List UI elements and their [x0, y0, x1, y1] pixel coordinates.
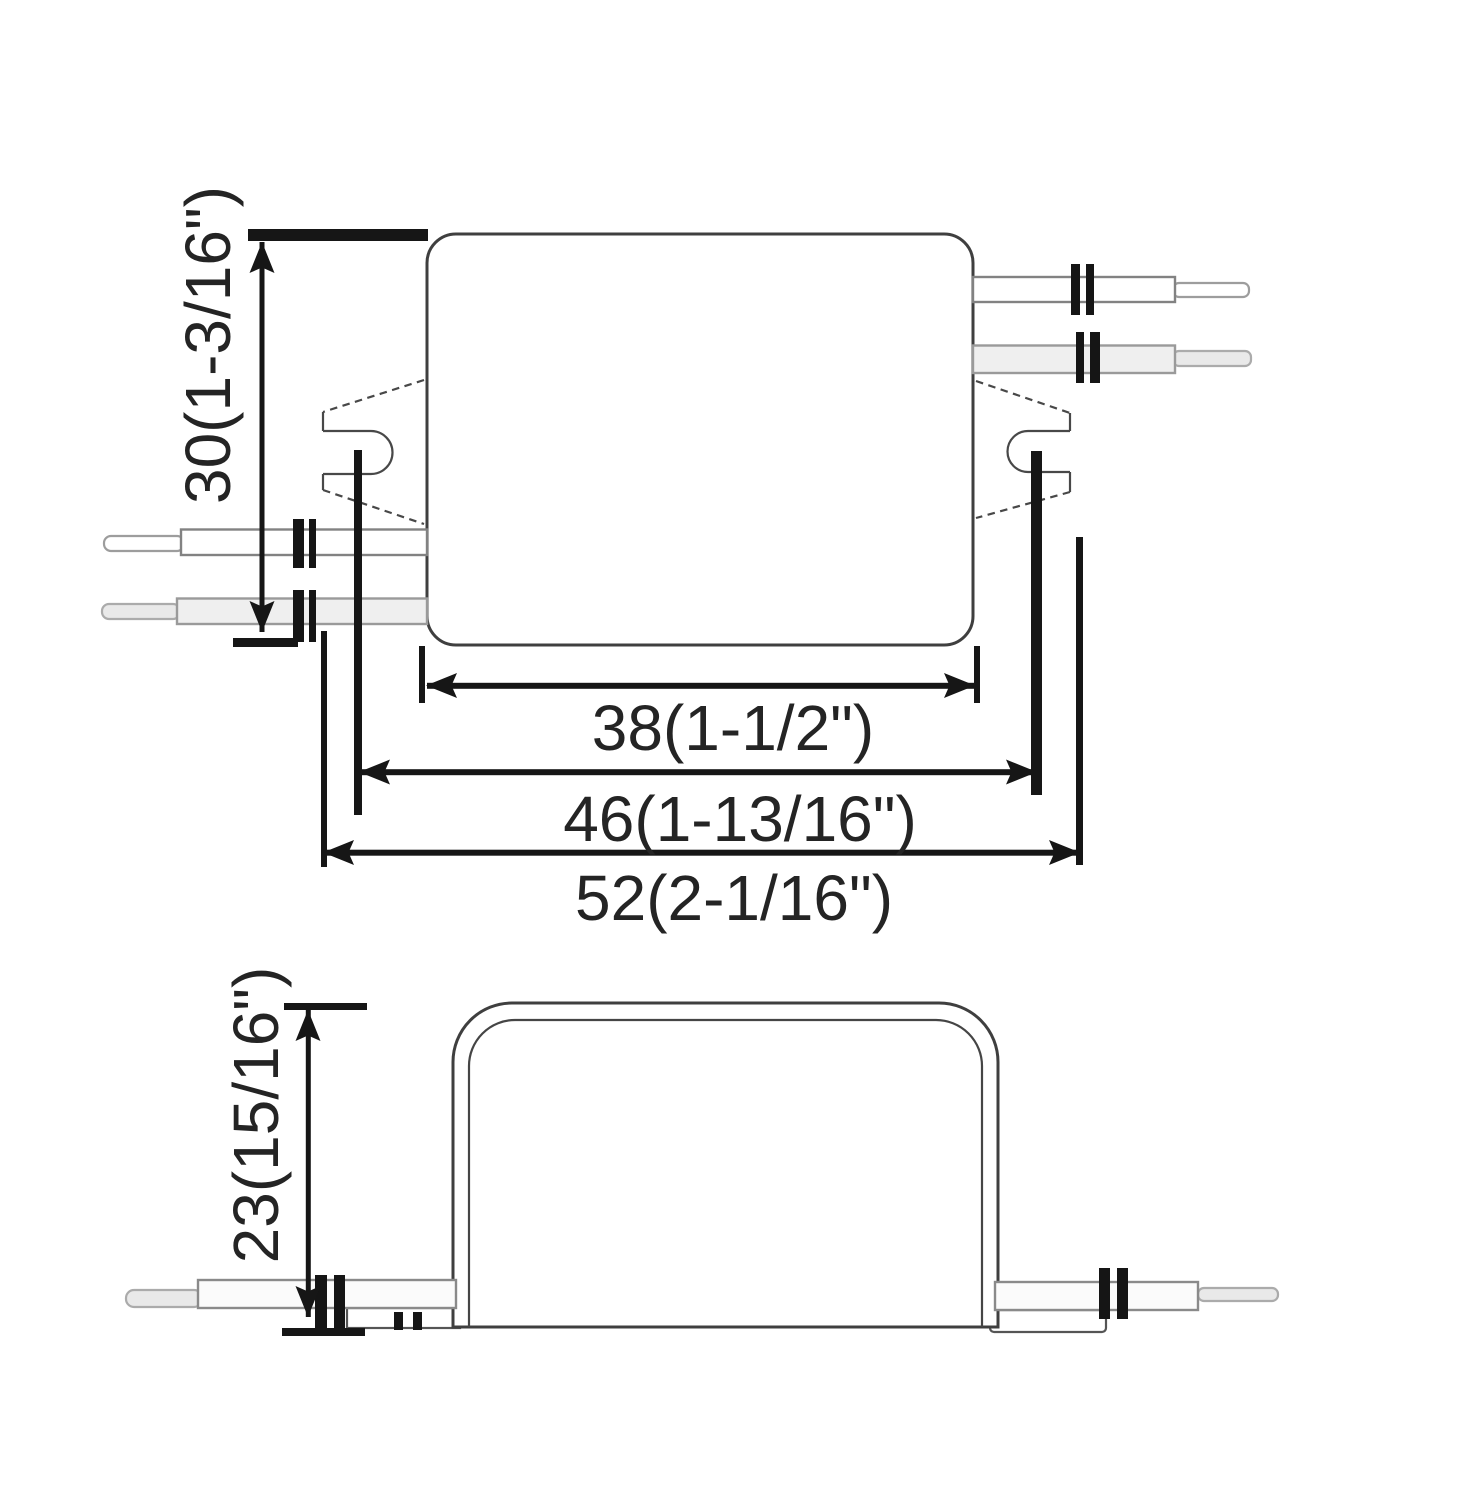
svg-text:23(15/16"): 23(15/16") — [220, 967, 292, 1264]
svg-text:46(1-13/16"): 46(1-13/16") — [563, 783, 917, 855]
svg-text:38(1-1/2"): 38(1-1/2") — [592, 692, 874, 764]
svg-text:30(1-3/16"): 30(1-3/16") — [172, 186, 244, 504]
svg-text:52(2-1/16"): 52(2-1/16") — [575, 862, 893, 934]
